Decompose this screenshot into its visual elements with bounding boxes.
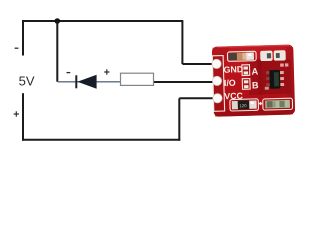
diode D1 triangle bbox=[77, 75, 96, 89]
wire right drop to GND pad bbox=[181, 21, 183, 64]
wire rise to VCC level bbox=[178, 98, 180, 140]
pcb dark copper patch around IC bbox=[257, 59, 291, 94]
svg-text:B: B bbox=[252, 80, 259, 90]
capacitor C1 top row bbox=[227, 51, 256, 61]
IC U2 TTP223 chip bbox=[264, 63, 289, 89]
pcb dark patch around jumpers bbox=[248, 59, 263, 95]
capacitor C2 top row pads bbox=[261, 51, 286, 61]
silkscreen box around pads bbox=[212, 56, 224, 112]
pad I/O bbox=[212, 76, 221, 85]
jumper A pads bbox=[242, 65, 250, 76]
jumper B pads bbox=[242, 79, 250, 90]
svg-text:I/O: I/O bbox=[224, 78, 236, 88]
wire top horizontal (5V minus to GND drop) bbox=[22, 20, 183, 22]
node junction on top wire bbox=[55, 18, 61, 24]
wire resistor to I/O pad bbox=[154, 81, 218, 83]
pcb dark patch right edge bbox=[286, 47, 295, 111]
arrow mark between bottom components bbox=[259, 102, 263, 106]
label plus of 5V source bbox=[14, 111, 19, 116]
wire bottom horizontal bbox=[22, 139, 180, 141]
pad GND bbox=[212, 59, 221, 68]
wire bottom stub from 5V plus terminal bbox=[22, 93, 24, 141]
svg-text:GND: GND bbox=[223, 64, 243, 75]
svg-text:A: A bbox=[251, 66, 258, 76]
wire junction drop to diode branch bbox=[56, 21, 58, 82]
resistor R2 bottom row marked 120 bbox=[230, 99, 259, 111]
module pcb body bbox=[212, 44, 295, 116]
pcb top edge highlight bbox=[217, 45, 289, 47]
diode D1 cathode bar bbox=[75, 75, 77, 88]
resistor R1 body bbox=[121, 73, 154, 85]
touch sensor module U1 TTP223 bbox=[211, 44, 295, 116]
svg-text:120: 120 bbox=[239, 103, 247, 108]
capacitor C3 bottom row greenish bbox=[263, 98, 293, 110]
pad VCC bbox=[213, 93, 222, 102]
pcb dark patch top-left corner bbox=[212, 47, 229, 58]
pcb dark patch pad column bbox=[213, 56, 224, 111]
svg-text:5V: 5V bbox=[19, 73, 35, 88]
label minus of 5V source bbox=[15, 47, 19, 49]
label plus at diode anode bbox=[104, 69, 109, 74]
pcb dark patch bottom strip bbox=[215, 108, 293, 116]
wire into VCC pad bbox=[179, 97, 217, 99]
label minus at diode cathode bbox=[67, 72, 71, 74]
wire into GND pad bbox=[182, 63, 217, 65]
diode D1 lead wire bbox=[58, 81, 121, 83]
wire left stub from 5V minus terminal bbox=[22, 20, 24, 56]
